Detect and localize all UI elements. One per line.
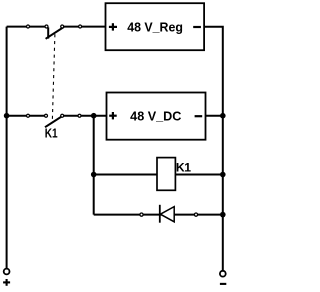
node right-rail diode junction (220, 212, 226, 218)
terminal + (bottom left) (3, 269, 10, 286)
mechanical linkage (dashed) (52, 34, 55, 122)
source box 48 V_DC (107, 93, 206, 140)
relay contact K1a (top, NC) (27, 25, 82, 39)
terminal - (bottom right) (220, 271, 226, 284)
relay coil K1 (157, 158, 175, 191)
wire row2 (right of contact to 48V_DC box) (62, 115, 106, 117)
wire left rail (6, 27, 8, 269)
diode D1 (flyback) (140, 205, 198, 223)
wire diode row (94, 214, 223, 216)
wire 48V_DC box to right rail (206, 115, 223, 117)
wire top row (right of contact to 48V_Reg box) (62, 26, 105, 28)
relay contact K1b (bottom, NO) (27, 114, 82, 127)
wire relay coil row (94, 174, 223, 176)
node row2-branch junction (91, 113, 97, 119)
node right-rail DC junction (220, 113, 226, 119)
svg-text:48 V_DC: 48 V_DC (130, 110, 181, 124)
wire right rail (204, 27, 223, 271)
wire top row (left of contact) (7, 26, 47, 28)
source box 48 V_Reg (106, 3, 205, 50)
node coil-row-left junction (91, 172, 97, 178)
svg-text:48 V_Reg: 48 V_Reg (127, 20, 183, 34)
node row2-left junction (4, 113, 10, 119)
node right-rail coil junction (220, 172, 226, 178)
svg-text:K1: K1 (45, 127, 58, 141)
wire branch from row2 down to diode row (93, 116, 95, 215)
wire row2 (left of contact) (7, 115, 46, 117)
svg-text:K1: K1 (176, 160, 191, 174)
